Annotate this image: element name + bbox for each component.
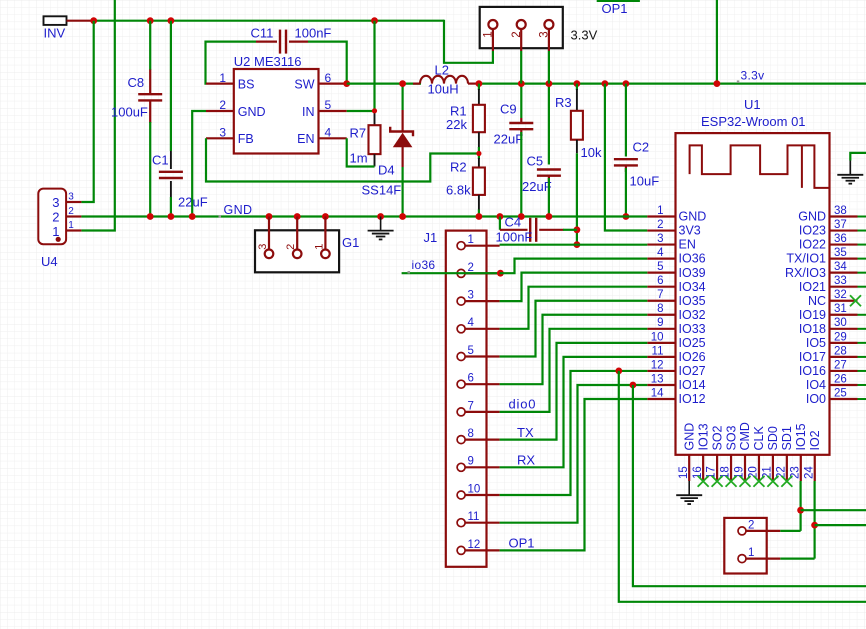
svg-text:1: 1 bbox=[483, 31, 495, 37]
wire io36 net bbox=[402, 272, 500, 274]
connector G1 bbox=[255, 217, 339, 273]
wire J1 pin12 to ESP pin14 bbox=[500, 399, 648, 550]
svg-text:IO0: IO0 bbox=[806, 392, 826, 406]
svg-text:5: 5 bbox=[657, 261, 663, 273]
wire J1 pin4 to ESP pin6 bbox=[500, 287, 648, 329]
svg-text:37: 37 bbox=[834, 219, 847, 231]
capacitor C2 bbox=[614, 159, 638, 172]
svg-text:io36: io36 bbox=[412, 258, 436, 272]
svg-text:1: 1 bbox=[657, 205, 663, 217]
label C1 value bbox=[178, 195, 208, 210]
capacitor C11 bbox=[256, 30, 308, 54]
svg-text:IO16: IO16 bbox=[799, 364, 826, 378]
wire SW to L2 bbox=[347, 82, 421, 84]
wire IO14 branch to bottom right bbox=[633, 385, 866, 586]
ground symbol left bbox=[368, 217, 394, 240]
svg-text:2: 2 bbox=[748, 519, 754, 531]
svg-text:10: 10 bbox=[468, 483, 481, 495]
svg-text:33: 33 bbox=[834, 275, 847, 287]
label L2 bbox=[435, 63, 449, 78]
label U1 value bbox=[701, 114, 806, 129]
svg-text:IO25: IO25 bbox=[679, 336, 706, 350]
svg-text:24: 24 bbox=[803, 466, 815, 479]
svg-text:11: 11 bbox=[652, 345, 664, 357]
connector 3.3V header bbox=[480, 7, 563, 51]
svg-text:IO33: IO33 bbox=[679, 322, 706, 336]
label C11 bbox=[251, 26, 274, 41]
svg-text:RX: RX bbox=[517, 453, 535, 468]
node junction IO2 bbox=[811, 522, 818, 529]
svg-text:36: 36 bbox=[834, 233, 847, 245]
wire C2 top bbox=[625, 84, 627, 157]
svg-text:SO3: SO3 bbox=[724, 425, 738, 450]
wire J1 pin5 to ESP pin7 bbox=[500, 301, 648, 357]
node junction GND bus x=297.2 bbox=[294, 213, 301, 220]
wire 3V3 to ESP pin2 bbox=[605, 84, 647, 231]
svg-text:L2: L2 bbox=[435, 63, 449, 78]
wire C8 top lead bbox=[149, 21, 151, 70]
label C4 bbox=[505, 214, 522, 229]
node junction L2-R1 bbox=[476, 80, 483, 87]
wire conn pin2 to rail bbox=[520, 51, 522, 84]
node junction C1 top bbox=[168, 17, 175, 24]
svg-text:IO13: IO13 bbox=[696, 423, 710, 450]
label C2 value bbox=[630, 173, 660, 188]
label C11 value bbox=[295, 26, 332, 41]
svg-text:C5: C5 bbox=[527, 153, 544, 168]
wire C9 top bbox=[520, 84, 522, 118]
svg-text:27: 27 bbox=[834, 359, 847, 371]
wire C4 right bbox=[563, 229, 577, 231]
wire D4 anode to bus bbox=[402, 167, 404, 217]
label R1 bbox=[450, 103, 467, 118]
svg-text:22k: 22k bbox=[446, 117, 467, 132]
svg-text:11: 11 bbox=[468, 511, 480, 523]
ground symbol right bbox=[837, 153, 866, 184]
wire top to 3.3v rail bbox=[716, 0, 718, 84]
wire J1 pin7 to ESP pin9 bbox=[500, 329, 648, 412]
node junction IO15 bbox=[797, 507, 804, 514]
wire C5 top bbox=[548, 84, 550, 165]
svg-text:C1: C1 bbox=[152, 153, 169, 168]
svg-text:IO27: IO27 bbox=[679, 364, 706, 378]
svg-text:31: 31 bbox=[834, 303, 847, 315]
svg-text:4: 4 bbox=[468, 317, 475, 329]
svg-text:IO21: IO21 bbox=[799, 280, 826, 294]
wire J1 pin6 to ESP pin8 bbox=[500, 315, 648, 384]
label C2 bbox=[633, 139, 650, 154]
wire IN to vertical bbox=[347, 110, 375, 112]
svg-text:8: 8 bbox=[657, 303, 663, 315]
svg-text:IO12: IO12 bbox=[679, 392, 706, 406]
label R1 value bbox=[446, 117, 467, 132]
svg-text:5: 5 bbox=[325, 98, 332, 112]
capacitor C8 bbox=[138, 70, 162, 124]
node junction GND bus x=325.4 bbox=[322, 213, 329, 220]
no-connect X pin 32 bbox=[850, 295, 861, 306]
svg-text:15: 15 bbox=[678, 466, 690, 479]
svg-text:1m: 1m bbox=[350, 151, 368, 166]
wire U2 FB to divider bbox=[206, 138, 479, 181]
wire C1 top lead bbox=[170, 21, 172, 151]
svg-text:1: 1 bbox=[219, 71, 226, 85]
svg-text:EN: EN bbox=[679, 238, 696, 252]
node junction C9 top bbox=[518, 80, 525, 87]
label net OP1 bbox=[509, 536, 535, 551]
svg-text:3.3V: 3.3V bbox=[571, 28, 598, 43]
node junction GND bus x=170.9 bbox=[168, 213, 175, 220]
svg-text:IO23: IO23 bbox=[799, 224, 826, 238]
label R2 value bbox=[446, 183, 471, 198]
svg-text:IO34: IO34 bbox=[679, 280, 706, 294]
svg-text:CMD: CMD bbox=[738, 422, 752, 450]
svg-text:26: 26 bbox=[834, 373, 847, 385]
svg-text:R3: R3 bbox=[555, 95, 572, 110]
svg-text:INV: INV bbox=[44, 26, 66, 41]
node junction GND bus x=269 bbox=[266, 213, 273, 220]
wire IO15 down bbox=[799, 481, 801, 531]
svg-text:38: 38 bbox=[834, 205, 847, 217]
svg-text:GND: GND bbox=[679, 210, 707, 224]
node junction IN-R7 bbox=[372, 108, 377, 113]
wire C9 bottom bbox=[520, 132, 522, 217]
svg-text:IN: IN bbox=[302, 105, 315, 119]
label R3 value bbox=[581, 145, 602, 160]
svg-text:ESP32-Wroom 01: ESP32-Wroom 01 bbox=[701, 114, 806, 129]
svg-text:22uF: 22uF bbox=[522, 179, 552, 194]
node junction INV-IN bbox=[371, 17, 378, 24]
node junction GND bus x=548.9 bbox=[546, 213, 553, 220]
svg-text:10k: 10k bbox=[581, 145, 602, 160]
node junction SW-C11 bbox=[343, 80, 350, 87]
wire U4 pin3 to INV rail bbox=[81, 21, 93, 202]
svg-text:12: 12 bbox=[651, 359, 664, 371]
wire J1 pin9 to ESP pin11 bbox=[500, 357, 648, 467]
svg-text:NC: NC bbox=[808, 294, 826, 308]
node junction R3 top bbox=[574, 80, 581, 87]
label net TX bbox=[517, 425, 534, 440]
wire IO2 to conn pin1 bbox=[780, 557, 814, 559]
wire IO2 to right edge bbox=[815, 524, 866, 526]
svg-text:100nF: 100nF bbox=[295, 26, 332, 41]
label R2 bbox=[450, 160, 467, 175]
label net io36 bbox=[412, 258, 436, 272]
svg-text:25: 25 bbox=[834, 387, 847, 399]
svg-text:6: 6 bbox=[657, 275, 663, 287]
svg-text:C8: C8 bbox=[128, 75, 145, 90]
svg-text:GND: GND bbox=[224, 203, 253, 217]
resistor R3 bbox=[571, 84, 583, 154]
label net RX bbox=[517, 453, 535, 468]
capacitor C1 bbox=[159, 151, 183, 197]
svg-text:2: 2 bbox=[468, 262, 474, 274]
wire J1 pin8 to ESP pin10 bbox=[500, 343, 648, 440]
wire INV rail elbow to 3.3V connector pin1 bbox=[444, 20, 493, 63]
svg-text:1: 1 bbox=[468, 234, 474, 246]
net tick GND bbox=[219, 215, 222, 218]
capacitor C4 bbox=[530, 218, 563, 242]
svg-text:3.3v: 3.3v bbox=[741, 68, 765, 82]
wire C11 right to SW bbox=[308, 42, 347, 84]
resistor R1 bbox=[473, 84, 485, 154]
svg-text:SS14F: SS14F bbox=[362, 183, 402, 198]
wire J1 pin3 to ESP pin5 bbox=[500, 273, 648, 301]
diode D4 SS14F bbox=[390, 110, 413, 167]
svg-text:3: 3 bbox=[468, 290, 474, 302]
IC U1 left pins 1-14 bbox=[647, 205, 706, 406]
wire U4 pin1 from top edge bbox=[81, 0, 114, 231]
label G1 bbox=[342, 235, 359, 250]
connector J1 bbox=[446, 231, 500, 567]
svg-text:28: 28 bbox=[834, 345, 847, 357]
svg-text:3V3: 3V3 bbox=[679, 224, 701, 238]
svg-text:TX: TX bbox=[517, 425, 534, 440]
inductor L2 bbox=[413, 76, 479, 84]
svg-text:SW: SW bbox=[294, 78, 314, 92]
IC U1 right pins 38-25 bbox=[785, 205, 866, 406]
svg-text:2: 2 bbox=[52, 210, 59, 225]
wire C4 left bbox=[500, 217, 528, 230]
svg-text:TX/IO1: TX/IO1 bbox=[786, 252, 826, 266]
svg-text:IO19: IO19 bbox=[799, 308, 826, 322]
svg-text:GND: GND bbox=[238, 105, 266, 119]
svg-text:OP1: OP1 bbox=[509, 536, 535, 551]
svg-text:5: 5 bbox=[468, 345, 474, 357]
svg-text:22uF: 22uF bbox=[494, 131, 524, 146]
wire OP1 stub top bbox=[597, 0, 640, 2]
wire IO2 down bbox=[813, 481, 815, 559]
svg-text:IO36: IO36 bbox=[679, 252, 706, 266]
svg-text:4: 4 bbox=[325, 126, 332, 140]
svg-text:6: 6 bbox=[325, 71, 332, 85]
svg-text:IO32: IO32 bbox=[679, 308, 706, 322]
svg-text:IO2: IO2 bbox=[808, 430, 822, 450]
svg-text:RX/IO3: RX/IO3 bbox=[785, 266, 826, 280]
svg-text:IO18: IO18 bbox=[799, 322, 826, 336]
svg-text:2: 2 bbox=[68, 206, 74, 217]
svg-text:GND: GND bbox=[798, 210, 826, 224]
svg-text:1: 1 bbox=[68, 220, 74, 231]
wire C8 bottom bbox=[149, 122, 151, 217]
svg-text:OP1: OP1 bbox=[602, 1, 628, 16]
svg-text:9: 9 bbox=[657, 317, 663, 329]
svg-text:3: 3 bbox=[68, 192, 74, 203]
svg-text:1: 1 bbox=[52, 224, 59, 239]
svg-text:2: 2 bbox=[219, 98, 226, 112]
svg-text:G1: G1 bbox=[342, 235, 359, 250]
wire 3.3v rail bbox=[479, 82, 866, 84]
wire GND bus bbox=[81, 215, 647, 217]
op-amp U2 ME3116 buck converter bbox=[206, 69, 347, 154]
wire D4 cathode to SW rail bbox=[402, 84, 404, 110]
label R7 bbox=[350, 126, 367, 141]
svg-text:SD1: SD1 bbox=[780, 426, 794, 450]
svg-text:8: 8 bbox=[468, 428, 474, 440]
node junction EN-R3 bbox=[574, 241, 581, 248]
label C9 bbox=[500, 102, 517, 117]
node junction GND bus x=150.2 bbox=[147, 213, 154, 220]
svg-text:IO5: IO5 bbox=[806, 336, 826, 350]
svg-text:9: 9 bbox=[468, 456, 474, 468]
svg-text:J1: J1 bbox=[424, 230, 438, 245]
svg-text:U4: U4 bbox=[41, 254, 58, 269]
svg-text:4: 4 bbox=[657, 247, 664, 259]
svg-text:U2 ME3116: U2 ME3116 bbox=[234, 54, 302, 69]
svg-text:R7: R7 bbox=[350, 126, 367, 141]
svg-text:IO22: IO22 bbox=[799, 238, 826, 252]
wire IO27 branch to bottom right bbox=[619, 371, 866, 602]
svg-text:2: 2 bbox=[285, 244, 297, 250]
svg-text:1: 1 bbox=[748, 547, 754, 559]
svg-text:SD0: SD0 bbox=[766, 426, 780, 450]
svg-text:C9: C9 bbox=[500, 102, 517, 117]
label net dio0 bbox=[509, 397, 537, 412]
wire J1 pin1 to EN bbox=[500, 244, 648, 246]
wire J1 pin10 to ESP pin12 bbox=[500, 371, 648, 495]
svg-text:GND: GND bbox=[682, 423, 696, 451]
svg-text:2: 2 bbox=[511, 31, 523, 37]
IC U1 ESP32 body with antenna logo bbox=[676, 133, 830, 455]
svg-text:3: 3 bbox=[657, 233, 663, 245]
svg-text:3: 3 bbox=[539, 31, 551, 37]
svg-text:3: 3 bbox=[257, 244, 269, 250]
label net GND bbox=[224, 203, 253, 217]
svg-text:6: 6 bbox=[468, 373, 474, 385]
svg-text:13: 13 bbox=[651, 373, 664, 385]
svg-text:12: 12 bbox=[468, 539, 481, 551]
node junction C4-R3 bbox=[574, 226, 581, 233]
label 3.3V bbox=[571, 28, 598, 43]
svg-text:CLK: CLK bbox=[752, 426, 766, 451]
wire U2 GND pin to bus bbox=[192, 111, 206, 217]
svg-text:100uF: 100uF bbox=[111, 105, 148, 120]
wire EN to R7 bottom bbox=[347, 138, 375, 166]
node junction conn pin2 bbox=[520, 83, 522, 85]
no-connect X pins 16-22 bbox=[698, 476, 793, 487]
svg-text:IO39: IO39 bbox=[679, 266, 706, 280]
svg-text:C11: C11 bbox=[251, 26, 274, 41]
connector 2-pin bottom right bbox=[724, 518, 780, 574]
svg-text:IO14: IO14 bbox=[679, 378, 706, 392]
svg-text:34: 34 bbox=[834, 261, 847, 273]
wire C2 bottom bbox=[625, 168, 627, 217]
node junction INV-U4pin3 bbox=[90, 17, 97, 24]
node junction GND bus x=521.3 bbox=[518, 213, 525, 220]
svg-text:7: 7 bbox=[657, 289, 663, 301]
node junction IO14 branch bbox=[630, 382, 637, 389]
svg-text:IO35: IO35 bbox=[679, 294, 706, 308]
label C9 value bbox=[494, 131, 524, 146]
svg-text:10uH: 10uH bbox=[428, 82, 459, 97]
node junction C8 top bbox=[147, 17, 154, 24]
label C5 value bbox=[522, 179, 552, 194]
node junction C2 bottom bbox=[623, 213, 630, 220]
svg-text:dio0: dio0 bbox=[509, 397, 537, 412]
resistor R2 bbox=[473, 154, 485, 217]
port INV bbox=[44, 16, 94, 25]
label C8 bbox=[128, 75, 145, 90]
node junction J1 pin2 bbox=[497, 270, 504, 277]
svg-text:14: 14 bbox=[651, 387, 664, 399]
svg-text:6.8k: 6.8k bbox=[446, 183, 471, 198]
wire IO15 to conn pin2 bbox=[780, 530, 800, 532]
label C4 value bbox=[496, 229, 533, 244]
svg-text:100nF: 100nF bbox=[496, 229, 533, 244]
node junction rail-top bbox=[714, 80, 721, 87]
node junction FB-R1-R2 bbox=[476, 151, 481, 156]
svg-text:2: 2 bbox=[657, 219, 663, 231]
svg-text:IO4: IO4 bbox=[806, 378, 826, 392]
capacitor C9 bbox=[509, 118, 533, 136]
wire J1 pin11 to ESP pin13 bbox=[500, 385, 648, 523]
svg-text:FB: FB bbox=[238, 132, 254, 146]
node junction 3V3 rail bbox=[602, 80, 609, 87]
svg-text:D4: D4 bbox=[378, 163, 395, 178]
wire C1 bottom bbox=[170, 197, 172, 217]
node junction GND bus x=478.9 bbox=[476, 213, 483, 220]
net tick 3.3v bbox=[737, 80, 740, 83]
wire INV vertical to IN bbox=[373, 21, 375, 111]
wire C5 bottom bbox=[548, 178, 550, 217]
label D4 value SS14F bbox=[362, 183, 402, 198]
net tick io36 bbox=[408, 271, 411, 274]
svg-text:1: 1 bbox=[313, 244, 325, 250]
wire IO15 to right edge bbox=[801, 509, 866, 511]
node junction GND bus x=192.2 bbox=[189, 213, 196, 220]
label U2 refdes bbox=[234, 54, 302, 69]
label net OP1 top bbox=[602, 1, 628, 16]
wire top INV rail bbox=[94, 20, 444, 22]
wire R3 bottom to EN node bbox=[576, 153, 578, 244]
label C1 bbox=[152, 153, 169, 168]
label D4 bbox=[378, 163, 395, 178]
svg-text:3: 3 bbox=[219, 126, 226, 140]
svg-text:IO15: IO15 bbox=[794, 423, 808, 450]
node junction D4-SW bbox=[399, 80, 406, 87]
label C5 bbox=[527, 153, 544, 168]
label net 3.3v bbox=[741, 68, 765, 82]
capacitor C5 bbox=[537, 170, 561, 183]
svg-text:C2: C2 bbox=[633, 139, 650, 154]
node junction GND bus x=402.6 bbox=[399, 213, 406, 220]
svg-text:IO26: IO26 bbox=[679, 350, 706, 364]
svg-text:EN: EN bbox=[297, 132, 314, 146]
ground symbol ESP pin15 bbox=[676, 481, 702, 504]
label R3 bbox=[555, 95, 572, 110]
label INV bbox=[44, 26, 66, 41]
node junction GND bus x=380.6 bbox=[377, 213, 384, 220]
svg-text:10uF: 10uF bbox=[630, 173, 660, 188]
svg-text:32: 32 bbox=[834, 289, 847, 301]
node junction C2 top bbox=[623, 80, 630, 87]
wire conn pin3 to rail bbox=[548, 51, 550, 84]
wire J1 pin2 to ESP pin4 IO36 bbox=[500, 259, 648, 274]
svg-text:30: 30 bbox=[834, 317, 847, 329]
resistor R7 bbox=[369, 111, 381, 167]
node junction C5 top bbox=[546, 80, 553, 87]
node junction GND bus x=499.9 bbox=[497, 213, 504, 220]
label J1 bbox=[424, 230, 438, 245]
svg-text:SO2: SO2 bbox=[710, 425, 724, 450]
IC U1 bottom pins 15-24 bbox=[678, 422, 822, 481]
svg-text:IO17: IO17 bbox=[799, 350, 826, 364]
svg-text:3: 3 bbox=[52, 195, 59, 210]
svg-text:7: 7 bbox=[468, 400, 474, 412]
svg-text:BS: BS bbox=[238, 78, 255, 92]
wire C11 left bbox=[206, 42, 257, 84]
label L2 value bbox=[428, 82, 459, 97]
svg-text:10: 10 bbox=[651, 331, 664, 343]
